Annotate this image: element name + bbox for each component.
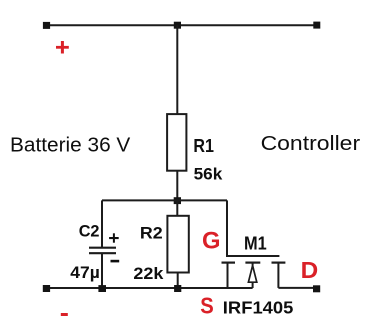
svg-text:56k: 56k [194, 165, 223, 184]
wire top rail [45, 24, 317, 26]
transistor M1 drain channel bar [272, 262, 286, 264]
node battery minus terminal [43, 285, 50, 292]
wire M1 drain down [277, 263, 279, 288]
node controller plus terminal [313, 22, 320, 29]
wire from top rail to R1 [176, 25, 178, 115]
svg-text:C2: C2 [79, 222, 100, 241]
svg-text:22k: 22k [133, 264, 164, 283]
svg-text:R2: R2 [140, 223, 163, 242]
capacitor C2 plates [89, 248, 116, 254]
transistor M1 gate plate [226, 255, 279, 257]
label C2 plus polarity [109, 233, 119, 242]
svg-text:R1: R1 [193, 135, 214, 156]
svg-text:Controller: Controller [261, 132, 361, 155]
node battery plus terminal [43, 22, 50, 29]
resistor R1 [167, 114, 186, 171]
node controller drain terminal [313, 285, 320, 292]
svg-text:G: G [202, 228, 221, 255]
svg-text:IRF1405: IRF1405 [223, 298, 294, 318]
label C2 minus polarity [111, 260, 120, 263]
wire M1 drain to controller [278, 287, 314, 289]
wire from R1 to node A [176, 171, 178, 201]
wire bottom rail [46, 287, 253, 289]
transistor M1 source channel bar [222, 262, 236, 264]
label battery plus polarity [56, 41, 69, 54]
svg-text:D: D [301, 257, 319, 283]
wire node A horizontal [102, 199, 227, 201]
node top center junction [174, 22, 181, 29]
wire node A down to R2 [176, 200, 178, 216]
svg-text:47µ: 47µ [70, 263, 100, 282]
resistor R2 [167, 216, 188, 273]
node R2 bottom junction [174, 285, 181, 292]
wire C2 bottom lead [101, 254, 103, 288]
svg-text:M1: M1 [244, 233, 267, 254]
svg-text:S: S [200, 292, 214, 318]
node A junction of R1 R2 C2 and gate [174, 197, 181, 204]
transistor M1 body arrow [248, 263, 256, 288]
wire R2 to bottom rail [177, 273, 179, 289]
wire gate vertical from node A [226, 200, 228, 256]
wire C2 top lead [101, 200, 103, 247]
wire M1 source to bottom rail [227, 263, 229, 288]
label battery minus polarity [61, 313, 68, 316]
transistor M1 body channel bar [245, 262, 260, 264]
node C2 bottom junction [98, 285, 106, 292]
svg-text:Batterie 36 V: Batterie 36 V [10, 135, 131, 157]
